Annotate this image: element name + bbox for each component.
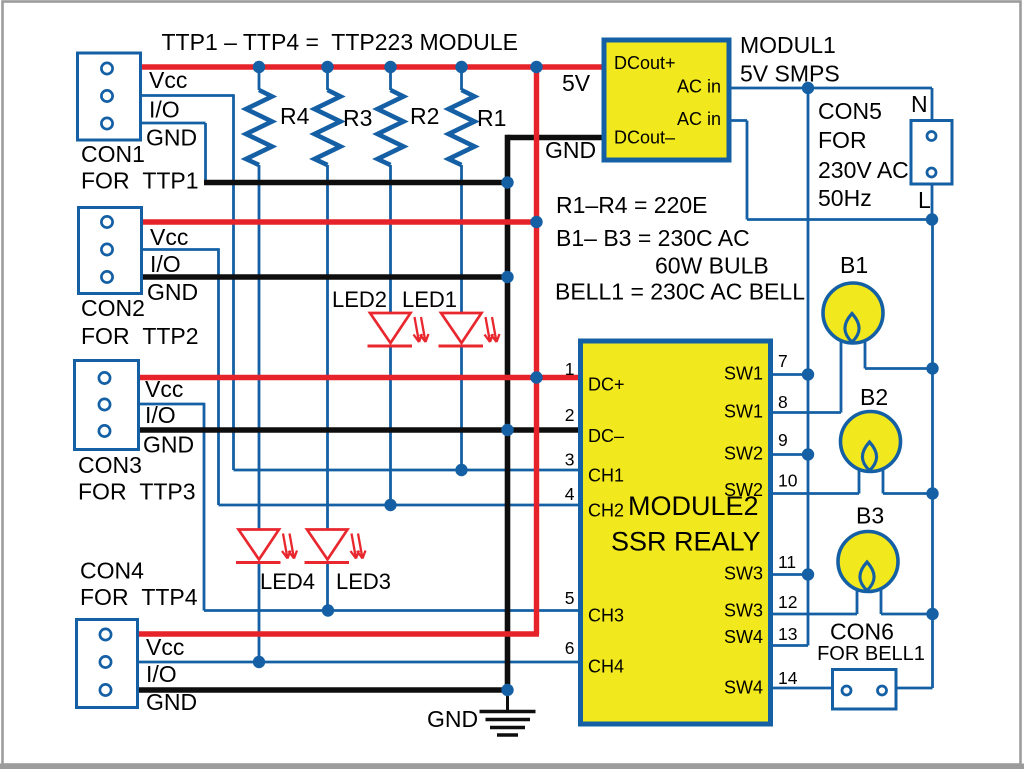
junction on AC bus <box>926 487 938 499</box>
junction on GND bus <box>501 176 513 188</box>
wire R4 top lead <box>258 67 261 90</box>
svg-text:FOR BELL1: FOR BELL1 <box>817 643 925 665</box>
svg-text:R1: R1 <box>477 105 506 131</box>
svg-text:CON3: CON3 <box>78 452 142 478</box>
svg-text:FOR TTP1: FOR TTP1 <box>81 168 199 194</box>
junction on AC bus <box>926 213 938 225</box>
resistor R3 <box>315 90 341 165</box>
svg-text:CH1: CH1 <box>588 466 624 486</box>
LED LED1 <box>439 313 500 346</box>
svg-text:SW2: SW2 <box>724 444 763 464</box>
wire LED3 to CH3 <box>326 563 329 611</box>
svg-text:SW3: SW3 <box>724 564 763 584</box>
junction on SW feed <box>802 448 814 460</box>
svg-text:I/O: I/O <box>145 402 176 428</box>
wire 5V bus vertical <box>534 67 539 634</box>
svg-text:CON6: CON6 <box>830 619 894 645</box>
wire CON3 GND / DC- row <box>140 427 582 433</box>
wire CON1 GND bus <box>204 180 508 186</box>
bulb B1 <box>823 283 883 343</box>
svg-text:LED2: LED2 <box>332 287 387 312</box>
wire R3 to LED3 <box>326 165 329 530</box>
wire B2 to AC bus <box>883 492 933 495</box>
junction on channel row <box>384 499 396 511</box>
wire pin9 SW2 <box>769 453 808 456</box>
wire CON2 GND bus <box>143 274 508 280</box>
svg-text:230V AC: 230V AC <box>818 157 909 183</box>
junction on 5V bus <box>455 61 467 73</box>
wire B3 left lead <box>856 589 859 614</box>
svg-text:SW2: SW2 <box>724 480 763 500</box>
wire CON3 I/O horizontal <box>140 403 204 406</box>
wire AC in 1 to CON5 N <box>729 87 932 90</box>
wire pin11 SW3 <box>769 573 808 576</box>
wire AC in 2 stub <box>729 119 747 122</box>
wire pin13 SW4 <box>769 644 808 647</box>
LED LED3 <box>305 530 366 563</box>
svg-text:Vcc: Vcc <box>146 634 184 660</box>
svg-text:B3: B3 <box>856 503 884 529</box>
svg-text:DCout+: DCout+ <box>614 53 676 73</box>
junction on channel row <box>455 464 467 476</box>
resistor R4 <box>246 90 272 165</box>
bulb B2 <box>841 412 901 472</box>
junction on AC bus <box>926 362 938 374</box>
junction on SW feed <box>802 568 814 580</box>
svg-text:GND: GND <box>146 689 197 715</box>
svg-text:SW1: SW1 <box>724 364 763 384</box>
wire LED2 to CH2 <box>389 346 392 505</box>
wire DCout- to GND bus <box>508 135 605 141</box>
svg-text:CON2: CON2 <box>81 295 145 321</box>
junction on 5V vertical <box>530 216 542 228</box>
svg-text:50Hz: 50Hz <box>818 185 872 211</box>
junction on SW feed <box>802 368 814 380</box>
svg-text:B2: B2 <box>860 384 888 410</box>
wire CON1 I/O vertical <box>232 94 235 470</box>
wire AC in 2 vertical <box>746 121 749 220</box>
wire pin14 SW4 to CON6 <box>769 687 832 690</box>
wire 5V bus top <box>142 64 604 69</box>
wire CON5 N drop <box>931 88 934 120</box>
svg-text:LED3: LED3 <box>336 569 391 594</box>
wire CH1 row <box>234 469 583 472</box>
junction on 5V bus <box>253 61 265 73</box>
wire CH2 row <box>219 504 583 507</box>
svg-text:AC in: AC in <box>677 109 721 129</box>
svg-text:CON1: CON1 <box>81 141 145 167</box>
svg-text:SW1: SW1 <box>724 402 763 422</box>
svg-text:60W BULB: 60W BULB <box>655 253 769 279</box>
wire B2 left lead <box>858 469 861 494</box>
connector CON2 <box>79 208 142 294</box>
svg-text:GND: GND <box>146 125 197 151</box>
wire R2 top lead <box>389 67 392 90</box>
svg-text:SW3: SW3 <box>724 601 763 621</box>
svg-text:Vcc: Vcc <box>149 67 187 93</box>
junction on 5V bus <box>321 61 333 73</box>
wire GND bus vertical <box>505 135 511 690</box>
junction AC feed <box>802 82 814 94</box>
svg-text:R3: R3 <box>343 105 372 131</box>
svg-text:I/O: I/O <box>146 661 177 687</box>
wire CON3 Vcc / DC+ row <box>140 375 582 380</box>
svg-text:GND: GND <box>427 706 478 732</box>
module MODULE2 SSR relay <box>581 341 771 724</box>
svg-text:7: 7 <box>778 351 788 371</box>
svg-text:11: 11 <box>778 552 796 572</box>
wire R1 to LED1 <box>460 165 463 313</box>
wire pin12 SW3 to B3 <box>769 613 857 616</box>
wire B1 to AC bus <box>865 367 933 370</box>
svg-text:DCout–: DCout– <box>614 128 675 148</box>
wire B2 right lead <box>882 469 885 494</box>
svg-text:SW4: SW4 <box>724 627 763 647</box>
svg-text:5V SMPS: 5V SMPS <box>740 61 840 87</box>
svg-text:3: 3 <box>565 450 575 470</box>
svg-text:GND: GND <box>143 432 194 458</box>
junction on 5V bus <box>530 61 542 73</box>
wire pin7 SW1 <box>769 373 808 376</box>
resistor R2 <box>378 90 404 165</box>
wire CON1 GND vertical <box>204 123 207 183</box>
svg-text:R2: R2 <box>410 103 439 129</box>
svg-text:5: 5 <box>565 588 575 608</box>
junction on GND bus <box>501 271 513 283</box>
svg-text:14: 14 <box>778 668 798 688</box>
junction on AC bus <box>926 608 938 620</box>
svg-text:CON5: CON5 <box>818 98 882 124</box>
connector CON6 <box>833 670 897 710</box>
svg-text:I/O: I/O <box>150 251 181 277</box>
svg-text:N: N <box>911 91 928 117</box>
svg-text:5V: 5V <box>562 70 591 96</box>
svg-text:6: 6 <box>565 638 575 658</box>
wire CON1 I/O horizontal <box>142 94 234 97</box>
svg-text:4: 4 <box>565 484 575 504</box>
svg-text:DC–: DC– <box>588 426 624 446</box>
svg-text:8: 8 <box>778 392 788 412</box>
svg-text:FOR TTP2: FOR TTP2 <box>81 323 199 349</box>
svg-text:CH2: CH2 <box>588 501 624 521</box>
wire LED1 to CH1 <box>460 346 463 470</box>
svg-text:SW4: SW4 <box>724 678 763 698</box>
svg-text:R4: R4 <box>280 103 310 129</box>
wire pin10 SW2 to B2 <box>769 492 859 495</box>
wire AC neutral bus vertical <box>931 220 934 689</box>
svg-text:SSR REALY: SSR REALY <box>611 527 761 557</box>
junction on channel row <box>253 656 265 668</box>
wire CH3 row <box>204 609 582 612</box>
svg-text:CH4: CH4 <box>588 657 624 677</box>
connector CON1 <box>78 53 141 140</box>
svg-text:2: 2 <box>565 405 575 425</box>
wire CON4 GND bus <box>139 687 508 693</box>
svg-text:B1: B1 <box>840 252 868 278</box>
wire LED4 to CH4 <box>258 563 261 663</box>
bulb B3 <box>838 532 898 592</box>
svg-text:DC+: DC+ <box>588 375 625 395</box>
wire CON4 I/O to CH4 row <box>139 661 582 664</box>
svg-text:13: 13 <box>778 624 797 644</box>
svg-text:FOR TTP3: FOR TTP3 <box>78 479 196 505</box>
wire B3 right lead <box>880 589 883 614</box>
wire B1 right lead <box>864 340 867 369</box>
svg-text:TTP1 – TTP4 = TTP223 MODULE: TTP1 – TTP4 = TTP223 MODULE <box>162 29 518 55</box>
wire CON3 I/O vertical <box>203 403 206 611</box>
svg-text:Vcc: Vcc <box>150 224 188 250</box>
wire pin8 SW1 to B1 <box>769 411 841 414</box>
connector CON4 <box>77 620 138 708</box>
svg-text:I/O: I/O <box>149 97 180 123</box>
wire R1 top lead <box>460 67 463 90</box>
svg-text:Vcc: Vcc <box>145 376 183 402</box>
ground symbol <box>480 690 536 735</box>
resistor R1 <box>449 90 475 165</box>
svg-text:FOR: FOR <box>818 127 867 153</box>
wire CON2 I/O horizontal <box>143 248 219 251</box>
LED LED4 <box>236 530 297 563</box>
svg-text:B1– B3 = 230C AC: B1– B3 = 230C AC <box>556 225 750 251</box>
wire AC in 2 to L node <box>747 218 932 221</box>
wire CON1 GND horizontal <box>142 122 206 125</box>
wire AC feed vertical to SW pins <box>807 88 810 646</box>
junction on GND bus <box>501 684 513 696</box>
svg-text:12: 12 <box>778 592 797 612</box>
wire B3 to AC bus <box>881 613 933 616</box>
wire R2 to LED2 <box>389 165 392 313</box>
wire B1 left lead <box>840 340 843 413</box>
svg-text:LED4: LED4 <box>260 569 315 594</box>
wire R3 top lead <box>326 67 329 90</box>
svg-text:GND: GND <box>545 137 596 163</box>
wire CON5 L drop <box>931 184 934 220</box>
svg-text:CON4: CON4 <box>80 558 144 584</box>
svg-text:LED1: LED1 <box>402 287 457 312</box>
svg-text:CH3: CH3 <box>588 606 624 626</box>
wire CON2 Vcc <box>143 219 537 224</box>
wire CON6 to AC bus <box>897 687 933 690</box>
connector CON5 <box>911 121 952 185</box>
svg-text:1: 1 <box>565 359 575 379</box>
LED LED2 <box>368 313 429 346</box>
svg-text:MODUL1: MODUL1 <box>740 32 836 58</box>
connector CON3 <box>75 361 139 450</box>
svg-text:9: 9 <box>778 430 788 450</box>
junction on 5V vertical <box>530 371 542 383</box>
wire R4 to LED4 <box>258 165 261 530</box>
junction on channel row <box>322 604 334 616</box>
svg-text:R1–R4 = 220E: R1–R4 = 220E <box>556 192 708 218</box>
svg-text:FOR TTP4: FOR TTP4 <box>80 584 198 610</box>
svg-text:GND: GND <box>147 279 198 305</box>
svg-text:BELL1 = 230C AC BELL: BELL1 = 230C AC BELL <box>555 279 805 305</box>
junction on 5V bus <box>384 61 396 73</box>
wire CON2 I/O vertical <box>217 248 220 505</box>
svg-text:10: 10 <box>778 471 798 491</box>
junction on GND bus <box>501 424 513 436</box>
svg-text:AC in: AC in <box>677 77 721 97</box>
wire CON4 Vcc <box>139 631 539 636</box>
module MODUL1 5V SMPS <box>604 40 729 160</box>
svg-text:L: L <box>918 187 931 213</box>
